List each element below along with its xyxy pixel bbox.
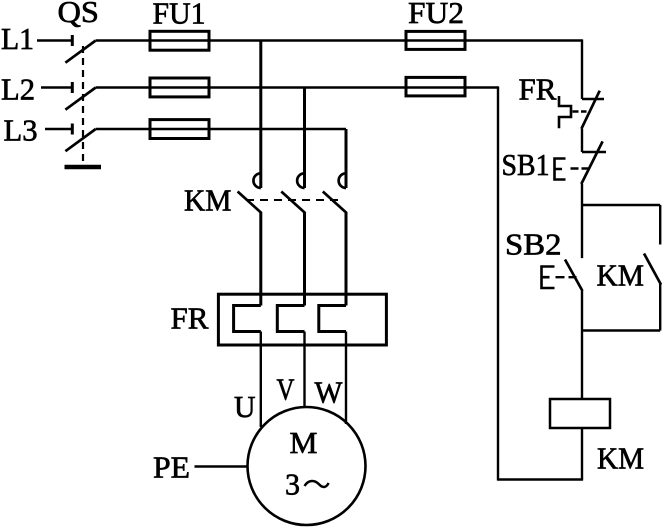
wire control right riser (581, 39, 583, 99)
svg-text:PE: PE (153, 450, 190, 485)
motor 3-phase label (285, 467, 329, 502)
wire L1 rail (96, 39, 582, 41)
svg-text:W: W (315, 375, 344, 410)
svg-text:FR: FR (171, 301, 209, 336)
thermal relay FR trip symbol (559, 96, 587, 128)
svg-text:3: 3 (285, 467, 300, 502)
contactor KM main contact 1 (238, 173, 262, 213)
contactor KM main contact 3 (323, 173, 347, 213)
svg-text:KM: KM (597, 258, 645, 293)
fuse FU2 pole 1 (406, 31, 465, 49)
wire phase dropper U upper (259, 41, 262, 189)
wire (581, 184, 583, 258)
svg-text:QS: QS (58, 0, 100, 29)
switch QS linkage dashed (82, 46, 84, 163)
wire phase W middle (345, 213, 348, 306)
wire left return riser (497, 86, 499, 480)
switch QS pole 3 (45, 124, 96, 152)
wire branch bottom (582, 284, 660, 331)
svg-text:M: M (290, 425, 318, 460)
svg-text:FU2: FU2 (408, 0, 464, 30)
wire phase dropper W upper (345, 129, 348, 188)
thermal relay FR heater element 3 (319, 306, 346, 332)
wire L3 rail (96, 128, 346, 130)
svg-text:L1: L1 (1, 21, 34, 56)
wire PE (195, 465, 248, 467)
fuse FU1 pole 1 (150, 31, 209, 50)
svg-text:SB2: SB2 (505, 227, 562, 262)
motor M circle (248, 407, 366, 525)
svg-text:KM: KM (597, 441, 644, 476)
fuse FU1 pole 3 (150, 120, 209, 139)
svg-text:L2: L2 (1, 72, 35, 107)
contactor KM auxiliary contact NO (644, 254, 661, 285)
contactor KM main contact 2 (281, 173, 305, 213)
fuse FU1 pole 2 (150, 78, 209, 97)
wire phase V middle (303, 213, 306, 306)
wire phase U lower (260, 332, 262, 428)
switch QS pole 1 (37, 35, 96, 63)
svg-text:SB1: SB1 (502, 147, 550, 182)
svg-text:L3: L3 (4, 113, 38, 148)
svg-text:V: V (277, 372, 295, 407)
svg-text:U: U (234, 389, 256, 424)
pushbutton SB1 NC (555, 141, 607, 184)
wire phase dropper V upper (303, 88, 306, 189)
pushbutton SB2 NO (542, 260, 583, 292)
svg-text:FR: FR (519, 72, 557, 107)
wire (581, 129, 583, 152)
wire phase V lower (303, 332, 305, 409)
fuse FU2 pole 2 (406, 77, 465, 96)
wire bottom return (498, 478, 583, 480)
svg-text:FU1: FU1 (153, 0, 206, 31)
wire branch top (582, 205, 660, 245)
wire L2 rail (96, 86, 498, 88)
switch QS handle bar (65, 165, 102, 170)
relay contact FR NC (581, 91, 604, 129)
wire (581, 428, 583, 480)
thermal relay FR heater element 2 (277, 306, 304, 332)
wire (581, 291, 583, 399)
svg-text:KM: KM (184, 183, 232, 218)
thermal relay FR heater box (218, 294, 386, 345)
switch QS pole 2 (41, 82, 96, 110)
contactor KM linkage dashed (246, 199, 341, 201)
wire phase U middle (259, 213, 262, 306)
thermal relay FR heater element 1 (234, 306, 261, 332)
coil KM (550, 399, 610, 428)
wire phase W lower (345, 332, 347, 425)
